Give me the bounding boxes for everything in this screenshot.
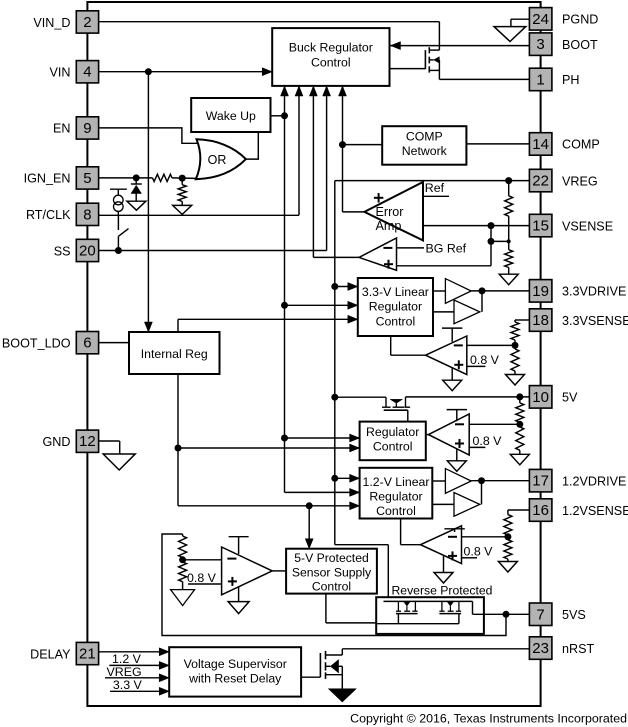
svg-text:0.8 V: 0.8 V <box>187 571 217 585</box>
pin 24 PGND <box>529 8 552 31</box>
label COMP Network <box>402 129 448 158</box>
wire VREG net <box>335 180 530 182</box>
svg-text:Network: Network <box>402 144 448 158</box>
arrow DELAY into supervisor <box>159 648 169 656</box>
node IGN_EN resistor tap <box>179 175 186 182</box>
svg-text:1: 1 <box>536 71 544 88</box>
wire 5VS net <box>473 601 530 614</box>
pin 2 VIN_D <box>76 11 98 33</box>
wire RT/CLK net <box>99 214 299 216</box>
transistor Q1 high-side FET <box>425 47 439 72</box>
wire WakeUp rail to 1.2V block <box>285 491 360 493</box>
svg-text:3.3-V Linear: 3.3-V Linear <box>362 285 429 299</box>
label BG Ref <box>426 242 467 256</box>
svg-text:1.2VSENSE: 1.2VSENSE <box>562 504 628 518</box>
arrow VIN into Internal Reg <box>144 322 152 332</box>
label 5VS <box>562 608 586 622</box>
svg-text:0.8 V: 0.8 V <box>464 544 494 558</box>
wire DELAY net <box>99 651 170 653</box>
svg-text:23: 23 <box>532 640 549 657</box>
node COMP junction <box>339 141 346 148</box>
resistor R8 1.2V divider lower <box>504 540 512 559</box>
node IGN_EN diode tap <box>133 174 140 181</box>
transistor Q3 reverse FET A <box>396 601 418 613</box>
resistor IGN_EN series <box>153 174 173 181</box>
ground under 3.3V divider <box>506 371 525 385</box>
svg-text:0.8 V: 0.8 V <box>470 353 500 367</box>
wire VSENSE to error amp <box>423 225 529 227</box>
arrow VREG into 1.2V block <box>350 474 360 482</box>
label U5 minus <box>448 536 457 538</box>
wire BOOT_LDO net <box>99 342 129 344</box>
svg-text:17: 17 <box>532 473 549 490</box>
label EN <box>53 122 71 136</box>
svg-text:BOOT_LDO: BOOT_LDO <box>2 336 71 350</box>
op-amp U6 sensor comparator <box>222 547 273 595</box>
ground under IGN_EN pulldown <box>173 201 192 214</box>
wire BOOT net <box>391 45 530 47</box>
wire U4 output <box>426 434 429 436</box>
resistor R1 VREG divider <box>505 181 513 217</box>
pin 4 VIN <box>76 61 98 83</box>
pin 12 GND <box>76 430 98 452</box>
op-amp U5 1.2V comparator <box>421 526 462 564</box>
wire reverse FET sources <box>376 614 459 624</box>
wire COMP junction rail <box>343 144 383 146</box>
resistor R4 3.3V divider lower <box>511 349 519 371</box>
label 3.3 V <box>113 678 143 692</box>
label Wake Up <box>206 109 256 123</box>
label U4 plus <box>455 439 464 448</box>
label U6 minus <box>227 558 236 560</box>
svg-text:IGN_EN: IGN_EN <box>24 172 71 186</box>
svg-text:VREG: VREG <box>562 174 598 188</box>
wire PH net <box>439 70 529 79</box>
resistor R10 sense divider lower <box>179 562 187 582</box>
label 1.2VDRIVE <box>562 475 626 489</box>
pin 7 5VS <box>529 603 552 626</box>
ground stub U6 <box>228 587 249 614</box>
svg-text:15: 15 <box>532 218 549 235</box>
label OR <box>208 153 227 167</box>
wire supervisor to Q5 gate <box>301 676 320 678</box>
wire 1.2V buffer2 output join <box>481 481 483 505</box>
label 3.3VSENSE <box>562 314 628 328</box>
node Internal Reg RegCtrl tap <box>175 445 182 452</box>
label 1.2-V Linear Regulator Control <box>363 475 430 518</box>
svg-text:Control: Control <box>311 56 351 70</box>
svg-text:3: 3 <box>536 36 544 53</box>
resistor IGN_EN pulldown <box>178 178 186 201</box>
svg-text:5V: 5V <box>562 391 578 405</box>
wire 3.3 V supervisor input <box>110 690 169 692</box>
wire reverse gate rail <box>384 600 473 602</box>
wire VIN_D net <box>99 22 440 50</box>
svg-text:3.3 V: 3.3 V <box>113 678 143 692</box>
svg-text:Amp: Amp <box>376 219 402 233</box>
label U5 plus <box>448 551 457 560</box>
diode D1 anode-cathode <box>131 178 142 201</box>
svg-text:Buck Regulator: Buck Regulator <box>289 41 373 55</box>
svg-text:19: 19 <box>532 283 549 300</box>
op-amp U2 BG comparator <box>359 238 397 270</box>
svg-text:PGND: PGND <box>562 13 598 27</box>
wire U3 output to 3.3V block <box>391 336 426 355</box>
ground under sense divider <box>171 582 195 606</box>
label U4 minus <box>455 423 464 425</box>
buffer 3.3V drive 2 <box>454 300 480 324</box>
wire IGN_EN to OR gate <box>172 177 196 180</box>
svg-text:24: 24 <box>532 11 549 28</box>
svg-text:5VS: 5VS <box>562 608 586 622</box>
wire 3.3V block to buffer 1 <box>433 290 445 292</box>
wire GND pin to ground <box>99 441 120 454</box>
wire 5-V block to reverse FETs <box>326 594 376 623</box>
label Voltage Supervisor <box>184 657 287 686</box>
svg-text:VSENSE: VSENSE <box>562 219 613 233</box>
label 0.8 V at U3 <box>470 353 500 367</box>
buffer 1.2V drive 1 <box>445 469 471 494</box>
wire 1.2V block to buffer 1 <box>432 480 445 482</box>
svg-text:RT/CLK: RT/CLK <box>26 208 71 222</box>
buffer 1.2V drive 2 <box>454 493 480 517</box>
node sense comparator tap <box>179 556 186 563</box>
node 5V divider tap <box>516 393 523 400</box>
wire Internal Reg to Regulator Control <box>178 447 360 449</box>
pin 18 3.3VSENSE <box>529 309 552 332</box>
ground under 5V divider <box>510 450 529 465</box>
pin 15 VSENSE <box>529 214 552 237</box>
svg-text:3.3VDRIVE: 3.3VDRIVE <box>562 285 626 299</box>
wire 3.3V block to buffer 2 <box>433 311 454 313</box>
arrow BG ref into Buck <box>309 86 317 96</box>
label Buck Regulator Control <box>289 41 373 70</box>
node Wake Up output junction <box>281 112 288 119</box>
svg-text:10: 10 <box>532 389 549 406</box>
svg-text:Regulator: Regulator <box>369 489 422 503</box>
node VREG rail 3.3V tap <box>331 283 338 290</box>
op-amp U4 5V comparator <box>429 414 470 455</box>
arrow into Regulator Control 1 <box>350 434 360 442</box>
supply bar U4 <box>447 410 467 422</box>
svg-text:14: 14 <box>532 136 549 153</box>
svg-text:COMP: COMP <box>406 129 443 143</box>
svg-text:18: 18 <box>532 312 549 329</box>
node 3.3VDRIVE junction <box>479 287 486 294</box>
wire nRST net <box>342 649 529 655</box>
svg-text:Reverse Protected: Reverse Protected <box>392 584 493 598</box>
label IGN_EN <box>24 172 71 186</box>
wire U3 plus stub <box>467 365 486 367</box>
svg-text:Copyright © 2016, Texas Instru: Copyright © 2016, Texas Instruments Inco… <box>350 712 627 726</box>
ground under diode <box>127 201 146 210</box>
ground power ground arrow <box>328 689 356 702</box>
wire 3.3VSENSE net <box>515 319 529 321</box>
label RT/CLK <box>26 208 71 222</box>
transistor Q2 5V pass FET <box>382 397 410 410</box>
svg-text:Control: Control <box>376 504 416 518</box>
label Error Amp text <box>376 205 404 233</box>
node SS switch tap <box>115 247 122 254</box>
wire Buck to Q1 gate <box>390 68 426 70</box>
arrow Internal Reg into 1.2V block <box>350 502 360 510</box>
wire to 5-V protected block <box>308 506 310 541</box>
wire VREG supervisor input <box>105 677 169 679</box>
ground under 1.2V divider <box>498 559 517 572</box>
pin 22 VREG <box>529 169 552 192</box>
svg-text:OR: OR <box>208 153 227 167</box>
or-gate OR1 <box>196 139 246 179</box>
svg-text:Regulator: Regulator <box>369 300 422 314</box>
label 1.2 V <box>112 652 142 666</box>
node WakeUp rail RegCtrl tap <box>281 435 288 442</box>
wire VREG rail to Q2 <box>335 396 386 398</box>
wire Q5 source to ground <box>341 675 343 689</box>
wire error amp to Buck <box>342 86 344 212</box>
pin 21 DELAY <box>76 642 98 664</box>
label COMP <box>562 138 600 152</box>
current source I1 <box>114 195 124 211</box>
svg-text:PH: PH <box>562 73 580 87</box>
resistor R6 5V divider lower <box>516 427 524 450</box>
svg-text:Sensor Supply: Sensor Supply <box>292 565 372 579</box>
arrow RT/CLK into Buck <box>295 86 303 96</box>
wire U5 output to 1.2V block <box>401 519 421 545</box>
svg-text:GND: GND <box>43 435 71 449</box>
node VSENSE junction <box>488 222 495 229</box>
wire VREG to 3.3V block <box>335 286 358 288</box>
ground PGND symbol <box>494 19 529 41</box>
wire sense loop <box>162 534 506 636</box>
switch S1 <box>118 215 128 250</box>
op-amp U1 Error Amp <box>364 182 423 240</box>
wire Ref input <box>423 195 449 197</box>
svg-text:2: 2 <box>83 14 91 31</box>
block Wake Up <box>191 98 270 132</box>
wire Q2 gate to Regulator Control <box>407 410 409 421</box>
node 5VS junction <box>503 611 510 618</box>
wire Internal Reg rail <box>177 374 179 506</box>
block Regulator Control <box>360 422 426 461</box>
wire BG ref to Buck <box>313 86 359 257</box>
block 1.2-V Linear Regulator Control <box>360 468 433 519</box>
svg-text:5: 5 <box>83 170 91 187</box>
wire SS to Buck <box>326 86 328 251</box>
svg-text:20: 20 <box>79 243 96 260</box>
pin 14 COMP <box>529 133 552 156</box>
resistor R5 5V divider upper <box>516 397 524 427</box>
label BG minus <box>383 247 392 249</box>
wire OR output to Wake Up <box>246 132 258 159</box>
label Regulator Control <box>366 425 419 454</box>
arrow VIN into Buck <box>262 68 272 76</box>
pin 5 IGN_EN <box>76 167 98 189</box>
label VREG <box>562 174 598 188</box>
wire VREG rail <box>334 181 336 545</box>
wire Internal Reg to 1.2V block <box>178 505 360 507</box>
wire U6 output <box>272 570 286 572</box>
svg-text:12: 12 <box>79 433 96 450</box>
pin 19 3.3VDRIVE <box>529 280 552 303</box>
wire VIN net <box>99 71 273 73</box>
label Error Amp plus <box>374 193 384 203</box>
label U6 plus <box>228 577 237 586</box>
node divider mid <box>507 239 511 243</box>
node VREG rail 1.2V tap <box>331 475 338 482</box>
arrow SS into Buck <box>323 86 331 96</box>
svg-text:Voltage Supervisor: Voltage Supervisor <box>184 657 287 671</box>
node 1.2V comparator tap <box>504 533 511 540</box>
wire U6 plus stub <box>188 583 222 585</box>
svg-text:4: 4 <box>83 64 91 81</box>
arrow into Regulator Control 2 <box>350 444 360 452</box>
label U3 minus <box>454 344 463 346</box>
label SS <box>54 244 71 258</box>
svg-text:21: 21 <box>79 646 96 663</box>
node BG plus junction <box>488 238 495 245</box>
wire 1.2 V supervisor input <box>109 664 169 666</box>
svg-text:Error: Error <box>376 205 404 219</box>
wire Wake Up output <box>271 115 285 117</box>
svg-text:BG Ref: BG Ref <box>426 242 467 256</box>
pin 1 PH <box>529 68 552 91</box>
label VIN_D <box>33 16 70 30</box>
svg-text:BOOT: BOOT <box>562 38 598 52</box>
svg-text:8: 8 <box>83 206 91 223</box>
label Reverse Protected <box>392 584 493 598</box>
ground GND symbol <box>103 454 135 470</box>
supply bar U6 <box>229 537 249 554</box>
current source supply bar <box>110 189 127 195</box>
wire buffer2 output join <box>481 291 483 312</box>
wire sense comparator minus <box>183 559 222 561</box>
arrow VREG into supervisor <box>159 674 169 682</box>
svg-text:Ref: Ref <box>425 181 445 195</box>
svg-text:1.2VDRIVE: 1.2VDRIVE <box>562 475 626 489</box>
label Ref <box>425 181 445 195</box>
wire BG Ref input <box>397 247 425 249</box>
buffer 3.3V drive 1 <box>445 279 471 304</box>
pin 16 1.2VSENSE <box>529 499 552 522</box>
arrow COMP into Buck <box>339 86 347 96</box>
transistor Q5 nRST FET <box>320 651 342 679</box>
label 0.8 V at U6 <box>187 571 217 585</box>
label 3.3-V Linear Regulator Control <box>362 285 429 329</box>
label PH <box>562 73 580 87</box>
block Internal Reg <box>129 332 220 374</box>
wire divider link <box>491 240 509 242</box>
node VREG divider tap <box>505 177 512 184</box>
arrow WakeUp rail into 1.2V block <box>350 488 360 496</box>
wire WakeUp rail to 3.3V block <box>285 304 358 306</box>
label 1.2VSENSE <box>562 504 628 518</box>
arrow into 5-V protected block <box>305 539 313 549</box>
ground stub U3 <box>443 368 462 391</box>
wire WakeUp rail to Regulator Control <box>285 437 360 439</box>
wire RT/CLK to Buck <box>298 86 300 215</box>
label GND <box>43 435 71 449</box>
wire BG plus input <box>397 226 492 266</box>
pin 9 EN <box>76 117 98 139</box>
wire SS net <box>99 250 327 252</box>
svg-text:EN: EN <box>53 122 71 136</box>
pin 6 BOOT_LDO <box>76 332 98 354</box>
wire VREG rail to gates <box>335 545 389 602</box>
node 5V comparator tap <box>516 421 523 428</box>
node WakeUp rail 3.3V tap <box>281 302 288 309</box>
svg-text:6: 6 <box>83 335 91 352</box>
node 1.2VDRIVE junction <box>478 477 485 484</box>
pin 20 SS <box>76 239 98 261</box>
svg-text:DELAY: DELAY <box>30 647 71 661</box>
supply bar U3 <box>442 328 462 342</box>
resistor R2 VREG divider <box>505 250 513 268</box>
wire VREG to 1.2V block <box>335 477 360 479</box>
wire 1.2V comparator minus <box>462 536 508 538</box>
arrow VREG into 3.3V block <box>348 283 358 291</box>
label BOOT_LDO <box>2 336 71 350</box>
svg-text:3.3VSENSE: 3.3VSENSE <box>562 314 628 328</box>
svg-text:Regulator: Regulator <box>366 425 419 439</box>
wire 5V comparator minus <box>469 423 520 425</box>
svg-text:0.8 V: 0.8 V <box>473 434 503 448</box>
pin 17 1.2VDRIVE <box>529 469 552 492</box>
chip boundary <box>87 2 540 706</box>
svg-text:Wake Up: Wake Up <box>206 109 256 123</box>
block 5-V Protected Sensor Supply Control <box>286 549 377 594</box>
block 3.3-V Linear Regulator Control <box>358 278 433 336</box>
block Buck Regulator Control <box>272 28 389 86</box>
svg-text:COMP: COMP <box>562 138 600 152</box>
label VREG <box>107 665 142 679</box>
pin 3 BOOT <box>529 33 552 56</box>
node 3.3V divider tap <box>512 342 519 349</box>
svg-text:16: 16 <box>532 502 549 519</box>
label VSENSE <box>562 219 613 233</box>
wire 3.3V comparator minus <box>467 344 515 346</box>
resistor R3 3.3V divider upper <box>511 320 519 349</box>
arrow Internal Reg into 3.3V block <box>348 315 358 323</box>
block Reverse Protected <box>376 597 484 634</box>
arrow BOOT into Buck <box>391 42 401 50</box>
wire current source to RT/CLK <box>117 211 119 215</box>
wire Internal Reg to 3.3V block <box>178 319 358 332</box>
label U3 plus <box>454 360 463 369</box>
arrow 3.3 V into supervisor <box>159 687 169 695</box>
label 5V <box>562 391 578 405</box>
resistor R9 sense divider upper <box>179 534 187 562</box>
label PGND <box>562 13 598 27</box>
block Voltage Supervisor <box>169 647 301 696</box>
svg-text:5-V Protected: 5-V Protected <box>294 551 369 565</box>
op-amp U3 3.3V comparator <box>426 336 467 375</box>
svg-text:22: 22 <box>532 173 549 190</box>
supply bar U5 <box>444 529 464 532</box>
svg-text:VIN_D: VIN_D <box>33 16 70 30</box>
wire 3.3VDRIVE net <box>471 290 529 292</box>
arrow Wake Up rail into Buck <box>281 86 289 96</box>
wire VIN to Internal Reg <box>147 72 149 331</box>
svg-text:Internal Reg: Internal Reg <box>141 347 208 361</box>
wire 1.2VDRIVE net <box>471 480 529 482</box>
wire U5 plus stub <box>462 557 478 559</box>
pin 10 5V <box>529 386 552 409</box>
transistor Q4 reverse FET B <box>439 601 461 613</box>
node VREG rail 5V tap <box>331 394 338 401</box>
svg-text:VREG: VREG <box>107 665 142 679</box>
svg-text:with Reset Delay: with Reset Delay <box>188 672 282 686</box>
label DELAY <box>30 647 71 661</box>
